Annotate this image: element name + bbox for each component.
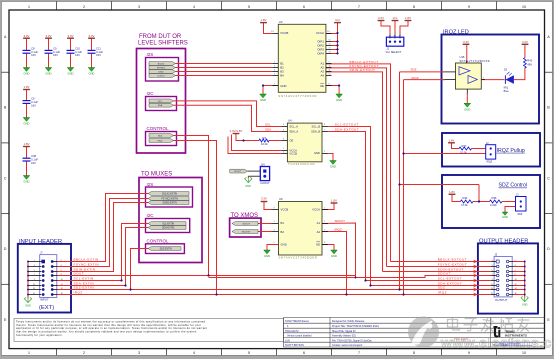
svg-text:SDZ-EXTIN: SDZ-EXTIN — [160, 248, 172, 250]
svg-text:SCL_B: SCL_B — [311, 125, 320, 129]
svg-text:BBCLK-EXTOUT: BBCLK-EXTOUT — [438, 258, 467, 262]
svg-text:SDA-EXTIN: SDA-EXTIN — [162, 226, 175, 229]
svg-text:SDA: SDA — [158, 104, 163, 107]
svg-text:(EXT): (EXT) — [39, 305, 54, 311]
svg-text:16V: 16V — [31, 103, 36, 107]
svg-text:U3: U3 — [279, 20, 283, 24]
svg-text:8: 8 — [329, 84, 330, 86]
svg-text:SDA_B: SDA_B — [311, 130, 320, 134]
svg-text:1: 1 — [28, 351, 30, 355]
svg-text:FROM DUT OR: FROM DUT OR — [139, 34, 182, 40]
svg-text:SDA_A: SDA_A — [289, 130, 298, 134]
svg-text:GND: GND — [522, 304, 528, 307]
svg-text:C10: C10 — [75, 46, 80, 50]
svg-text:2: 2 — [61, 260, 62, 262]
svg-text:0.1uF: 0.1uF — [75, 50, 82, 54]
svg-text:1: 1 — [34, 260, 35, 262]
svg-text:SCL: SCL — [265, 122, 271, 126]
svg-text:1: 1 — [394, 35, 395, 37]
svg-text:4: 4 — [274, 70, 275, 72]
svg-text:GND: GND — [245, 185, 251, 188]
svg-text:10: 10 — [329, 66, 331, 68]
svg-text:7: 7 — [358, 351, 360, 355]
svg-text:6: 6 — [303, 5, 305, 9]
svg-text:7: 7 — [34, 274, 35, 276]
svg-text:GND: GND — [330, 165, 336, 169]
svg-text:1: 1 — [442, 70, 443, 72]
svg-text:5: 5 — [34, 270, 35, 272]
svg-text:FSYNC2-EXTIN: FSYNC2-EXTIN — [161, 198, 178, 200]
svg-text:1.8V: 1.8V — [331, 199, 337, 203]
svg-text:SCOTT BRYSON: SCOTT BRYSON — [285, 344, 304, 347]
svg-text:18: 18 — [329, 52, 331, 54]
svg-text:3.3V/1.8V: 3.3V/1.8V — [230, 129, 243, 133]
svg-text:7: 7 — [324, 129, 325, 131]
svg-text:6: 6 — [283, 138, 284, 140]
svg-text:10.0k: 10.0k — [460, 151, 467, 155]
svg-text:11: 11 — [329, 70, 331, 72]
svg-text:2: 2 — [283, 151, 284, 153]
svg-text:0.1uF: 0.1uF — [31, 100, 38, 104]
svg-text:DOUT: DOUT — [74, 272, 85, 276]
svg-text:C38: C38 — [31, 154, 36, 158]
svg-text:3: 3 — [274, 66, 275, 68]
svg-text:IRQZ: IRQZ — [412, 76, 419, 80]
svg-text:IRQ-EXT: IRQ-EXT — [242, 231, 251, 233]
svg-text:GND: GND — [280, 84, 286, 88]
svg-text:1: 1 — [283, 148, 284, 150]
svg-text:5: 5 — [324, 151, 325, 153]
svg-text:BCLK2: BCLK2 — [158, 63, 165, 65]
svg-text:16V: 16V — [75, 53, 80, 57]
svg-text:XDOUT: XDOUT — [234, 171, 241, 173]
svg-text:SCL_A: SCL_A — [289, 125, 298, 129]
svg-text:2: 2 — [324, 221, 325, 223]
svg-text:Vcc: Vcc — [335, 18, 340, 22]
svg-text:7: 7 — [274, 84, 275, 86]
svg-text:GND: GND — [264, 254, 270, 258]
svg-text:OE: OE — [316, 242, 320, 246]
svg-text:5: 5 — [274, 74, 275, 76]
svg-text:SN74AVC2T245DQER: SN74AVC2T245DQER — [279, 256, 318, 260]
svg-text:BBCLK-EXTIN: BBCLK-EXTIN — [74, 258, 99, 262]
svg-text:6: 6 — [324, 242, 325, 244]
svg-text:IRQZ: IRQZ — [158, 140, 164, 142]
svg-text:Vcc SELECT: Vcc SELECT — [386, 50, 402, 54]
svg-text:GND: GND — [336, 98, 342, 102]
svg-text:4: 4 — [193, 351, 195, 355]
svg-text:I2C: I2C — [147, 213, 155, 218]
svg-text:9: 9 — [468, 5, 470, 9]
svg-text:SDZ: SDZ — [438, 286, 446, 290]
svg-text:TAS2770EVM-Stereo: TAS2770EVM-Stereo — [285, 320, 309, 323]
svg-text:16: 16 — [329, 44, 331, 46]
svg-text:A2: A2 — [317, 230, 321, 234]
svg-text:1: 1 — [324, 207, 325, 209]
svg-text:Project Title: TAS2770RJA STER: Project Title: TAS2770RJA STEREO EVAL — [332, 325, 380, 328]
svg-text:functionality for your applica: functionality for your application. — [16, 333, 63, 337]
svg-text:3.3V: 3.3V — [522, 40, 528, 44]
svg-text:I2S: I2S — [147, 52, 154, 57]
svg-text:LUN: LUN — [285, 339, 290, 342]
svg-text:I2S: I2S — [147, 182, 154, 187]
svg-text:U4: U4 — [288, 119, 292, 123]
svg-text:3.3V: 3.3V — [46, 34, 52, 38]
svg-text:GND: GND — [25, 305, 31, 308]
svg-text:Blue: Blue — [504, 90, 510, 93]
svg-text:1.8V: 1.8V — [24, 85, 30, 89]
svg-text:3.3V: 3.3V — [68, 34, 74, 38]
svg-text:16V: 16V — [31, 161, 36, 165]
svg-text:5: 5 — [248, 5, 250, 9]
svg-text:X-DOUT: X-DOUT — [260, 182, 270, 185]
svg-text:SDZ: SDZ — [158, 135, 163, 137]
svg-text:4: 4 — [193, 5, 195, 9]
svg-text:OE: OE — [289, 139, 293, 143]
svg-text:SDOUT: SDOUT — [438, 272, 451, 276]
svg-text:SN74AVC4T774RSVR: SN74AVC4T774RSVR — [278, 94, 317, 98]
svg-text:15: 15 — [33, 293, 35, 295]
svg-text:14: 14 — [61, 288, 63, 290]
svg-text:DOUT2: DOUT2 — [158, 75, 166, 77]
svg-text:8: 8 — [413, 351, 415, 355]
svg-text:10: 10 — [522, 351, 526, 355]
svg-text:SDA-EXTOUT: SDA-EXTOUT — [335, 128, 359, 132]
svg-text:OE: OE — [320, 84, 324, 88]
svg-text:16V: 16V — [53, 53, 58, 57]
svg-text:GND: GND — [502, 215, 508, 219]
svg-text:16V: 16V — [31, 53, 36, 57]
svg-text:15: 15 — [491, 293, 493, 295]
svg-text:16V: 16V — [96, 53, 101, 57]
svg-text:Version control disabled: Version control disabled — [287, 335, 312, 338]
svg-text:1: 1 — [492, 260, 493, 262]
svg-text:10: 10 — [61, 279, 63, 281]
svg-text:OUTPUT: OUTPUT — [495, 298, 508, 302]
svg-text:DIN2: DIN2 — [159, 71, 165, 73]
svg-text:2: 2 — [83, 5, 85, 9]
svg-text:16: 16 — [61, 293, 63, 295]
svg-text:3: 3 — [399, 35, 400, 37]
svg-text:FSYNC2: FSYNC2 — [157, 67, 166, 69]
svg-text:8: 8 — [413, 5, 415, 9]
svg-text:I2C: I2C — [147, 91, 155, 96]
svg-text:Designed for: Public Release: Designed for: Public Release — [332, 320, 365, 323]
svg-text:B2: B2 — [281, 230, 285, 234]
svg-text:13: 13 — [33, 288, 35, 290]
svg-text:C9: C9 — [53, 46, 57, 50]
svg-text:5: 5 — [274, 242, 275, 244]
svg-text:SDIN2-EXTIN: SDIN2-EXTIN — [163, 202, 178, 204]
svg-text:IRQZ: IRQZ — [74, 291, 83, 295]
svg-text:499: 499 — [527, 62, 532, 66]
svg-text:GND: GND — [314, 151, 320, 155]
svg-text:9: 9 — [492, 279, 493, 281]
svg-text:R4: R4 — [263, 136, 267, 140]
svg-text:2: 2 — [515, 260, 516, 262]
svg-text:17: 17 — [329, 48, 331, 50]
svg-text:1.8V: 1.8V — [449, 138, 455, 142]
svg-text:8: 8 — [61, 274, 62, 276]
svg-text:16: 16 — [515, 293, 517, 295]
svg-text:12: 12 — [329, 74, 331, 76]
svg-text:LEVEL SHIFTERS: LEVEL SHIFTERS — [138, 41, 188, 47]
svg-text:4: 4 — [483, 77, 484, 79]
svg-text:CONTROL: CONTROL — [147, 126, 169, 131]
svg-text:Contact: www.ti.com/support: Contact: www.ti.com/support — [332, 344, 363, 347]
svg-text:4: 4 — [283, 124, 284, 126]
svg-text:3: 3 — [138, 351, 140, 355]
svg-text:VCCB: VCCB — [280, 31, 288, 35]
svg-text:3: 3 — [34, 265, 35, 267]
svg-text:U6: U6 — [279, 197, 283, 201]
svg-text:SDZ: SDZ — [518, 213, 523, 216]
svg-text:C8: C8 — [31, 46, 35, 50]
svg-text:3: 3 — [492, 265, 493, 267]
svg-text:R34: R34 — [463, 196, 468, 200]
svg-text:7: 7 — [492, 274, 493, 276]
svg-text:0.1uF: 0.1uF — [31, 50, 38, 54]
svg-text:Assembly Variant: 001: Assembly Variant: 001 — [332, 335, 356, 338]
svg-text:VCCA: VCCA — [316, 31, 324, 35]
svg-text:GND: GND — [464, 108, 470, 112]
svg-text:GND: GND — [331, 254, 337, 258]
svg-text:IRQZ Pullup: IRQZ Pullup — [497, 148, 525, 154]
svg-text:5: 5 — [248, 351, 250, 355]
svg-text:File: TIDA-01072A_Signal IO.Sc: File: TIDA-01072A_Signal IO.SchDoc — [332, 339, 373, 342]
svg-text:TIDA-01072: TIDA-01072 — [285, 330, 299, 333]
svg-text:4: 4 — [515, 265, 516, 267]
svg-text:2: 2 — [442, 77, 443, 79]
svg-text:14: 14 — [515, 288, 517, 290]
svg-text:B4: B4 — [280, 74, 284, 78]
svg-text:GND: GND — [281, 242, 287, 246]
svg-text:Vcc: Vcc — [393, 16, 398, 20]
svg-text:SCL-EXTIN: SCL-EXTIN — [162, 223, 174, 225]
svg-text:GND: GND — [89, 72, 95, 76]
svg-text:15: 15 — [329, 40, 331, 42]
svg-text:C6: C6 — [31, 97, 35, 101]
svg-text:BCLK2-EXTIN: BCLK2-EXTIN — [162, 193, 177, 195]
svg-text:3.3V: 3.3V — [261, 197, 267, 201]
svg-text:47.0k: 47.0k — [461, 203, 468, 207]
svg-text:10: 10 — [522, 5, 526, 9]
svg-text:1.8V: 1.8V — [24, 142, 30, 146]
svg-text:3.3V: 3.3V — [378, 16, 384, 20]
svg-text:SN74LVT1T126DCKR: SN74LVT1T126DCKR — [460, 60, 490, 63]
svg-text:1: 1 — [28, 5, 30, 9]
svg-text:SCL-EXTIN: SCL-EXTIN — [74, 277, 94, 281]
svg-text:9: 9 — [329, 62, 330, 64]
svg-text:2.20k: 2.20k — [490, 203, 497, 207]
svg-text:1.8V: 1.8V — [405, 16, 411, 20]
svg-text:A4: A4 — [320, 74, 324, 78]
svg-text:SDOUT: SDOUT — [243, 223, 251, 225]
svg-text:6: 6 — [303, 351, 305, 355]
svg-text:3: 3 — [138, 5, 140, 9]
svg-text:SDZ-EXTIN: SDZ-EXTIN — [74, 286, 94, 290]
svg-text:9: 9 — [468, 351, 470, 355]
svg-text:8: 8 — [274, 207, 275, 209]
svg-text:3: 3 — [283, 129, 284, 131]
svg-text:1.8V: 1.8V — [261, 18, 267, 22]
svg-text:SDA: SDA — [265, 128, 271, 132]
svg-text:Sheet Title: Signal IO: Sheet Title: Signal IO — [332, 330, 356, 333]
svg-text:INPUT: INPUT — [40, 298, 49, 302]
svg-text:VCCB: VCCB — [289, 152, 297, 156]
svg-text:12: 12 — [515, 284, 517, 286]
svg-text:4: 4 — [274, 230, 275, 232]
svg-text:IRQZ: IRQZ — [335, 227, 342, 231]
svg-text:2: 2 — [274, 62, 275, 64]
svg-text:8: 8 — [515, 274, 516, 276]
svg-text:0.1uF: 0.1uF — [31, 158, 38, 162]
svg-text:12: 12 — [61, 284, 63, 286]
svg-text:10: 10 — [515, 279, 517, 281]
svg-text:10.0k: 10.0k — [261, 142, 268, 146]
svg-text:FSYNC-EXTOUT: FSYNC-EXTOUT — [438, 263, 467, 267]
svg-text:GND: GND — [260, 98, 266, 102]
svg-text:SDZ Control: SDZ Control — [499, 183, 528, 189]
svg-text:IRQZ: IRQZ — [487, 160, 493, 163]
svg-text:8: 8 — [324, 124, 325, 126]
svg-text:SCL-EXTOUT: SCL-EXTOUT — [438, 277, 462, 281]
svg-text:11: 11 — [33, 284, 35, 286]
svg-text:DIR4: DIR4 — [318, 52, 325, 56]
svg-text:IRQZ: IRQZ — [438, 291, 447, 295]
svg-text:SDIN-EXTOUT: SDIN-EXTOUT — [350, 68, 376, 72]
svg-text:C11: C11 — [96, 46, 101, 50]
svg-text:0.1uF: 0.1uF — [53, 50, 60, 54]
svg-text:GND: GND — [24, 180, 30, 184]
svg-text:7: 7 — [324, 230, 325, 232]
svg-text:TCA9406DCUR: TCA9406DCUR — [288, 162, 315, 166]
svg-text:SCL-EXTOUT: SCL-EXTOUT — [335, 122, 359, 126]
svg-text:0.1uF: 0.1uF — [96, 50, 103, 54]
svg-text:SDOUT: SDOUT — [335, 219, 346, 223]
svg-text:GND: GND — [24, 122, 30, 126]
svg-text:2: 2 — [389, 35, 390, 37]
svg-text:3.3V: 3.3V — [89, 34, 95, 38]
svg-text:5: 5 — [492, 270, 493, 272]
svg-text:4: 4 — [61, 265, 62, 267]
svg-text:9: 9 — [34, 279, 35, 281]
svg-text:GND: GND — [46, 72, 52, 76]
svg-text:INSTRUMENTS: INSTRUMENTS — [505, 334, 527, 338]
svg-text:R42: R42 — [527, 59, 532, 63]
svg-text:CONTROL: CONTROL — [147, 238, 169, 243]
svg-text:1.8V: 1.8V — [449, 190, 455, 194]
svg-text:3.3V: 3.3V — [463, 40, 469, 44]
svg-text:7: 7 — [358, 5, 360, 9]
svg-text:2: 2 — [83, 351, 85, 355]
svg-text:R36: R36 — [492, 196, 497, 200]
svg-text:6: 6 — [515, 270, 516, 272]
svg-text:GND: GND — [24, 72, 30, 76]
svg-text:U16: U16 — [460, 55, 465, 59]
svg-text:6: 6 — [61, 270, 62, 272]
svg-text:3.3V: 3.3V — [24, 34, 30, 38]
svg-text:GND: GND — [68, 72, 74, 76]
svg-text:VCCA: VCCA — [312, 208, 320, 212]
svg-text:VCCB: VCCB — [281, 208, 289, 212]
svg-text:3: 3 — [274, 221, 275, 223]
svg-text:13: 13 — [491, 288, 493, 290]
svg-text:B1: B1 — [281, 221, 285, 225]
svg-text:A1: A1 — [317, 221, 321, 225]
svg-text:11: 11 — [491, 284, 493, 286]
svg-text:SDZ: SDZ — [411, 67, 417, 71]
svg-text:FSYNC-EXTIN: FSYNC-EXTIN — [74, 263, 100, 267]
svg-text:R37: R37 — [462, 144, 467, 148]
